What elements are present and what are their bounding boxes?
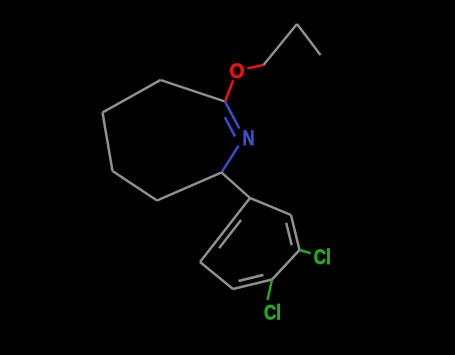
bond C1-O (225, 80, 233, 101)
bond CH2-CH2 (264, 24, 298, 65)
bond C6'-ipso (200, 198, 250, 262)
bond C2'-C3' (291, 215, 300, 250)
double bond C4'=C5' inner (239, 275, 264, 281)
svg-text:O: O (230, 60, 245, 83)
double bond C6'=C1' inner (219, 220, 241, 248)
svg-text:N: N (243, 127, 255, 150)
bond O-CH2 (247, 65, 263, 68)
bond ipso-C2' (250, 198, 291, 215)
bond C6-C7 (103, 80, 161, 113)
bond C3-ipso (222, 173, 251, 199)
bond C4-C5 (113, 171, 158, 201)
bond C3'-Cl1 (300, 250, 311, 253)
bond CH2-CH3 (297, 24, 321, 55)
svg-text:Cl: Cl (264, 302, 281, 325)
bond C4'-Cl2 (268, 280, 273, 301)
svg-text:Cl: Cl (314, 246, 331, 269)
bond C4'-C5' (233, 280, 272, 290)
bond N-C3 (222, 146, 239, 173)
bond C5-C6 (103, 113, 113, 172)
bond C3-C4 (157, 173, 222, 201)
double bond C1=N (225, 102, 239, 129)
bond C5'-C6' (200, 262, 233, 289)
double bond C2'=C3' inner (286, 223, 292, 245)
bond C3'-C4' (272, 250, 300, 280)
bond C7-C1 (161, 80, 226, 102)
